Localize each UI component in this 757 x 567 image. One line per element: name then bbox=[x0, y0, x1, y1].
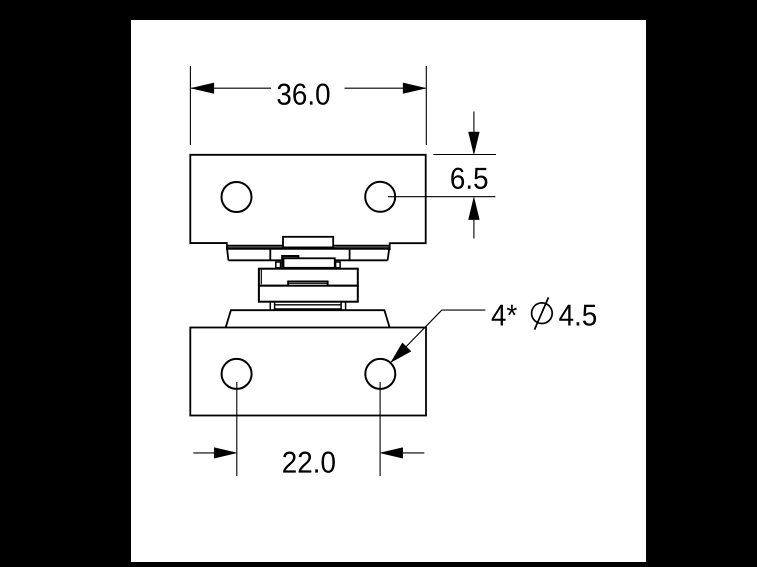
dimension 22.0 right shaft bbox=[403, 452, 425, 454]
washer pin left bbox=[276, 262, 281, 268]
dimension text 22.0 bbox=[283, 452, 335, 473]
dimension text 36.0 bbox=[277, 84, 329, 105]
washer block bbox=[284, 258, 335, 268]
dimension 22.0 left shaft bbox=[193, 452, 215, 454]
bottom pin right bbox=[341, 302, 346, 311]
dimension 6.5 lower arrowhead (points up) bbox=[469, 197, 480, 219]
white drawing canvas bbox=[131, 20, 646, 562]
wing row divider right bbox=[349, 249, 351, 260]
dimension 36.0 arrowhead right bbox=[403, 83, 426, 94]
hole callout arrowhead bbox=[391, 343, 411, 363]
dimension 36.0 arrowhead left bbox=[191, 83, 214, 94]
dimension 6.5 upper arrow shaft bbox=[473, 112, 475, 134]
diameter symbol slash bbox=[535, 297, 549, 329]
knuckle main block lower bbox=[259, 286, 358, 302]
hole callout leader line bbox=[391, 310, 486, 362]
dimension 22.0 extension line left bbox=[236, 382, 238, 476]
top plate outline bbox=[190, 155, 425, 243]
dimension 36.0 line left segment bbox=[191, 87, 271, 89]
dimension 6.5 lower arrow shaft bbox=[473, 219, 475, 239]
center tab on top plate bottom bbox=[283, 237, 333, 248]
callout text 4.5 bbox=[559, 305, 596, 326]
dimension 22.0 extension line right bbox=[379, 382, 381, 476]
bottom plate outline bbox=[190, 328, 426, 416]
bottom plate hole left bbox=[222, 359, 252, 389]
dimension 22.0 arrowhead left (points right) bbox=[214, 448, 237, 459]
dimension 36.0 extension line left bbox=[189, 66, 191, 145]
hinge leaf thin strip under top plate bbox=[227, 244, 390, 246]
knuckle thin tab bbox=[288, 282, 327, 286]
washer L-tab bbox=[282, 256, 298, 267]
bottom flange trapezoid bbox=[226, 310, 390, 327]
wing row trapezoid bbox=[227, 247, 390, 260]
dimension 6.5 leader from right hole (lower extension line) bbox=[388, 196, 495, 198]
diameter symbol circle bbox=[532, 303, 553, 324]
dimension 6.5 upper arrowhead (points down) bbox=[469, 132, 480, 154]
dimension 36.0 extension line right bbox=[425, 66, 427, 145]
dimension 36.0 line right segment bbox=[345, 87, 426, 89]
knuckle inner vertical line bbox=[260, 270, 262, 285]
dimension 22.0 arrowhead right (points left) bbox=[380, 448, 403, 459]
bottom plate hole right bbox=[365, 359, 395, 389]
top plate hole left bbox=[222, 182, 252, 212]
strip left end step bbox=[226, 242, 228, 250]
callout text 4* bbox=[492, 305, 517, 326]
top plate hole right bbox=[365, 182, 395, 212]
dimension 6.5 extension line top bbox=[433, 154, 496, 156]
wing row divider left bbox=[269, 249, 271, 260]
washer pin right bbox=[336, 262, 341, 268]
bottom thin strip between pins bbox=[275, 304, 342, 306]
strip right end step bbox=[389, 242, 391, 250]
knuckle main block upper bbox=[259, 269, 358, 286]
bottom pin left bbox=[270, 302, 274, 311]
dimension text 6.5 bbox=[451, 168, 487, 189]
